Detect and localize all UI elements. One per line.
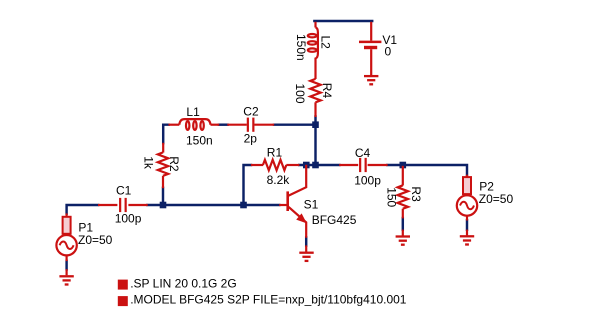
- S1 emitter ground lead: [305, 245, 307, 251]
- wire L1 corner down to R2: [163, 125, 169, 144]
- svg-text:Z0=50: Z0=50: [479, 192, 514, 206]
- svg-text:R4: R4: [320, 83, 334, 99]
- node C2/R4 junction: [312, 121, 319, 128]
- port P1: [65, 213, 67, 217]
- capacitor C1: [119, 198, 121, 212]
- wire L2/R4 bottom to collector node: [314, 117, 316, 167]
- wire emitter segment: [305, 237, 307, 245]
- P1 ground lead: [65, 269, 67, 275]
- wire C2 to node: [274, 123, 317, 125]
- node C1/R2 junction: [160, 202, 167, 209]
- wire top rail L2 to V1: [314, 20, 372, 22]
- wire C1 to S1 base: [147, 204, 279, 206]
- capacitor C4 leads: [339, 164, 358, 166]
- ground under V1: [364, 75, 378, 77]
- resistor R4: [310, 79, 320, 102]
- wire P2 to ground: [466, 220, 468, 230]
- wire L1 to C2: [219, 123, 228, 125]
- wire C4 to P2 corner: [387, 165, 467, 175]
- ground under R3: [396, 235, 410, 237]
- wire R1 to C4: [299, 164, 339, 166]
- svg-text:C4: C4: [355, 146, 371, 160]
- capacitor C2 leads: [227, 124, 247, 126]
- capacitor C2: [247, 118, 249, 132]
- node R1/base junction: [240, 202, 247, 209]
- inductor L1: [179, 119, 210, 125]
- simulation box .SP: [118, 280, 128, 290]
- svg-text:150n: 150n: [294, 34, 308, 61]
- svg-text:8.2k: 8.2k: [267, 173, 291, 187]
- svg-text:S1: S1: [304, 198, 319, 212]
- ground under S1: [299, 252, 313, 254]
- svg-text:0: 0: [385, 44, 392, 58]
- transistor S1: [279, 204, 286, 206]
- node collector junction: [303, 162, 310, 169]
- svg-text:.MODEL BFG425 S2P FILE=nxp_bjt: .MODEL BFG425 S2P FILE=nxp_bjt/110bfg410…: [130, 292, 407, 306]
- ground under P2: [460, 235, 474, 237]
- inductor L2: [316, 27, 318, 58]
- capacitor C4: [359, 158, 361, 172]
- node R4 line junction: [312, 162, 319, 169]
- svg-text:L1: L1: [186, 105, 200, 119]
- port P2: [466, 175, 468, 178]
- svg-text:L2: L2: [319, 36, 333, 50]
- svg-text:.SP LIN 20 0.1G 2G: .SP LIN 20 0.1G 2G: [130, 276, 237, 290]
- wire P1 corner to C1: [67, 205, 99, 214]
- wire R2 bottom to junction: [162, 188, 164, 206]
- resistor R2: [162, 143, 164, 153]
- node C4/R3 junction: [400, 162, 407, 169]
- wire P1 to ground: [65, 261, 67, 270]
- P2 ground lead: [466, 230, 468, 236]
- capacitor C1 leads: [98, 204, 117, 206]
- wire R3 to ground: [402, 218, 404, 230]
- inductor L1 leads: [169, 124, 180, 126]
- svg-text:150: 150: [385, 187, 399, 207]
- svg-text:BFG425: BFG425: [312, 213, 357, 227]
- svg-text:R2: R2: [167, 156, 181, 172]
- svg-text:100p: 100p: [354, 173, 381, 187]
- svg-text:1k: 1k: [142, 156, 156, 170]
- svg-text:150n: 150n: [186, 134, 213, 148]
- svg-text:C1: C1: [116, 184, 132, 198]
- svg-text:2p: 2p: [244, 131, 258, 145]
- R3 ground lead: [402, 230, 404, 236]
- svg-text:100p: 100p: [115, 211, 142, 225]
- svg-text:R3: R3: [409, 186, 423, 202]
- svg-text:100: 100: [293, 84, 307, 104]
- svg-text:R1: R1: [267, 145, 283, 159]
- ground under P1: [59, 275, 73, 277]
- voltage source V1: [370, 22, 372, 41]
- resistor R3: [402, 166, 404, 186]
- svg-text:C2: C2: [243, 105, 259, 119]
- inductor L2 leads: [314, 22, 316, 28]
- wire R1 corner down to base wire: [244, 165, 252, 206]
- resistor R1: [251, 164, 263, 166]
- svg-text:Z0=50: Z0=50: [78, 233, 113, 247]
- model box .MODEL: [118, 296, 128, 306]
